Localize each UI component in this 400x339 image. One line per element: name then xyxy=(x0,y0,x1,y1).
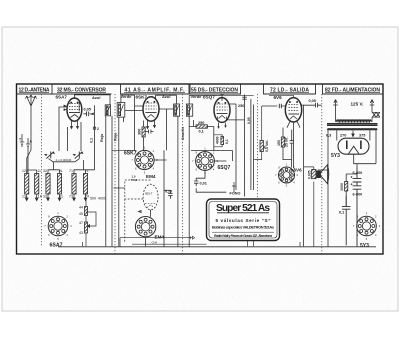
osc coil box T1 xyxy=(105,105,110,116)
resistor R5 150 xyxy=(281,137,284,147)
svg-text:5 válvulas Serie “S”: 5 válvulas Serie “S” xyxy=(216,218,271,223)
tube V2 top stub xyxy=(155,95,157,100)
tube V2 legs xyxy=(148,121,155,127)
tube V1 internals xyxy=(69,104,80,110)
svg-text:0,05: 0,05 xyxy=(84,108,91,112)
V5 plates xyxy=(347,141,361,150)
svg-text:71: 71 xyxy=(69,169,73,173)
svg-text:250: 250 xyxy=(198,121,204,125)
svg-text:250: 250 xyxy=(238,104,244,108)
svg-text:44: 44 xyxy=(79,206,83,210)
svg-text:2 x 0,00046: 2 x 0,00046 xyxy=(56,158,72,162)
wire V4 grid xyxy=(262,105,286,107)
svg-text:7L: 7L xyxy=(85,169,89,173)
socket X2 pin numbers xyxy=(131,146,158,175)
wire antenna to coil xyxy=(27,150,31,173)
svg-text:4000: 4000 xyxy=(98,197,106,201)
tuning gang link xyxy=(49,159,80,162)
wire T2 down xyxy=(119,117,124,246)
wire R chain xyxy=(86,198,96,246)
svg-text:270: 270 xyxy=(340,133,346,137)
svg-text:6V6: 6V6 xyxy=(274,95,283,100)
resistor R3 300 xyxy=(142,127,145,137)
svg-text:13: 13 xyxy=(22,195,26,199)
wire plate right xyxy=(159,109,174,150)
resistor R6 1000 xyxy=(345,182,348,192)
tube V1 legs xyxy=(72,121,78,127)
tube V3 diode plates xyxy=(218,117,227,120)
electrolytic C9 xyxy=(353,186,362,247)
rectifier V5 5Y3 envelope xyxy=(338,138,369,154)
wire fono xyxy=(196,151,234,193)
svg-text:6SA7: 6SA7 xyxy=(56,94,68,99)
secondary taps xyxy=(328,131,376,171)
svg-text:0,05: 0,05 xyxy=(309,99,316,103)
socket X6 pin numbers xyxy=(353,211,381,241)
svg-text:0,1: 0,1 xyxy=(199,130,204,134)
terminal arrow end xyxy=(189,236,195,239)
grid wire left xyxy=(59,107,67,151)
section divider 4 xyxy=(257,94,259,198)
header box DETECCION xyxy=(190,84,241,94)
section divider 1 xyxy=(41,94,43,247)
svg-text:43: 43 xyxy=(79,231,83,235)
title box rule xyxy=(212,231,274,233)
svg-text:Rojo: Rojo xyxy=(100,133,104,142)
capacitor C1 0,05 xyxy=(83,112,88,117)
tube V3 6SQ7 envelope xyxy=(214,98,230,123)
svg-text:Azul: Azul xyxy=(162,94,170,99)
svg-text:33: 33 xyxy=(43,195,47,199)
wire T1 down Rojo xyxy=(105,116,107,247)
svg-text:73: 73 xyxy=(69,195,73,199)
capacitor C4 0,01 xyxy=(194,178,198,186)
mains plug pin L xyxy=(333,100,338,119)
svg-text:300: 300 xyxy=(138,129,142,135)
svg-text:Verde: Verde xyxy=(191,94,203,99)
variable capacitor CV2 xyxy=(75,152,82,159)
IF transformer T3 left box xyxy=(174,104,180,116)
tube V3 internals xyxy=(217,104,228,110)
tube V2 grid wire xyxy=(125,110,143,112)
tube V1 6SA7 envelope xyxy=(67,98,82,121)
wire field coil left xyxy=(318,170,328,247)
svg-text:Amarillo: Amarillo xyxy=(181,127,185,140)
wire h sec3 xyxy=(112,150,167,160)
bus verticals xyxy=(83,241,301,247)
wire h sec4 xyxy=(191,151,233,162)
svg-text:5Y3: 5Y3 xyxy=(331,153,340,159)
header box ANTENA xyxy=(17,84,112,94)
capacitor C6 0,05 xyxy=(304,103,322,108)
wire V5 bottom xyxy=(354,154,376,167)
svg-text:6SQ7: 6SQ7 xyxy=(203,94,215,99)
svg-text:6SQ7: 6SQ7 xyxy=(218,165,231,171)
coil pair L6 xyxy=(83,174,87,195)
heater line CN4 xyxy=(132,243,207,245)
terminal A xyxy=(26,138,30,174)
header box SALIDA xyxy=(264,84,316,94)
svg-text:0,25: 0,25 xyxy=(165,190,172,194)
socket X5 6V6 xyxy=(279,167,295,183)
svg-text:6SK7: 6SK7 xyxy=(136,94,148,99)
svg-text:6SA7: 6SA7 xyxy=(50,243,63,249)
transformer TR primary xyxy=(337,120,372,121)
svg-text:32: 32 xyxy=(43,169,47,173)
resistor R1 xyxy=(85,207,88,216)
voltage selector xyxy=(373,113,380,117)
svg-text:FONO: FONO xyxy=(230,192,241,196)
arrow C1 xyxy=(90,113,94,115)
wire T3 down xyxy=(177,116,179,247)
output transformer T4 xyxy=(312,170,316,179)
svg-text:6-800: 6-800 xyxy=(353,171,363,175)
IF T3 right box xyxy=(186,104,192,116)
wire C1 down xyxy=(86,105,95,170)
potentiometer P1 0,5 xyxy=(260,141,263,152)
V5 filament xyxy=(349,146,359,154)
coupling capacitor C11 xyxy=(279,104,281,108)
resistor R4 250 xyxy=(196,125,207,128)
wire EM4 down xyxy=(114,150,165,247)
svg-text:0,01: 0,01 xyxy=(200,182,207,186)
svg-text:4000: 4000 xyxy=(216,136,220,144)
terminal T xyxy=(20,134,24,147)
svg-text:Rojo: Rojo xyxy=(113,132,117,141)
svg-text:T 0,5: T 0,5 xyxy=(131,178,138,182)
wire V4 plate xyxy=(301,105,303,167)
section divider 2 xyxy=(114,94,116,254)
svg-text:6-800: 6-800 xyxy=(353,192,363,196)
socket X1 pin numbers xyxy=(44,211,72,241)
svg-text:3L: 3L xyxy=(59,169,63,173)
osc coil pair L3 xyxy=(46,174,50,195)
svg-text:0,1: 0,1 xyxy=(90,138,94,143)
section divider 3 xyxy=(182,94,184,254)
title box border xyxy=(207,199,280,241)
socket X1 6SA7 xyxy=(48,216,68,236)
svg-text:Radio Watt y Paseo de Gracia 1: Radio Watt y Paseo de Gracia 132 - Barce… xyxy=(214,234,272,238)
socket X3 EM4 xyxy=(135,217,155,237)
tube V4 6V6 envelope xyxy=(285,98,301,122)
socket X2 6SK7 xyxy=(135,150,154,169)
capacitor C10 xyxy=(342,196,351,245)
variable capacitor CV1 xyxy=(46,152,53,159)
coil pair L5 xyxy=(72,174,76,195)
capacitor C7 25mf xyxy=(290,130,294,160)
wires tube legs to gang xyxy=(59,122,81,151)
svg-text:1000: 1000 xyxy=(340,183,344,191)
magic eye EM4 outline xyxy=(143,184,158,210)
svg-text:CN4: CN4 xyxy=(152,241,158,245)
wire top sec5 xyxy=(269,95,294,98)
osc coil pair L4 xyxy=(57,174,61,195)
terminal circle 2 xyxy=(93,127,96,130)
wire sec5 verticals xyxy=(283,123,314,246)
svg-text:Bobinas especiales VALDETRON 5: Bobinas especiales VALDETRON 521As xyxy=(212,224,274,229)
wire gang to coils xyxy=(27,160,86,170)
header box AMPLIF MF xyxy=(121,84,190,94)
wires right cluster xyxy=(230,95,254,197)
capacitor C5 250 xyxy=(242,97,246,99)
svg-text:45: 45 xyxy=(79,212,83,216)
antenna xyxy=(27,95,36,150)
schematic frame xyxy=(17,84,384,254)
svg-text:6V6: 6V6 xyxy=(294,167,303,172)
coil top links xyxy=(27,170,37,198)
svg-text:0,05: 0,05 xyxy=(247,117,251,124)
svg-text:EM4: EM4 xyxy=(155,235,165,240)
wire T3b verde xyxy=(189,96,222,105)
svg-text:Azul: Azul xyxy=(92,95,100,100)
svg-text:0,5 Vol.: 0,5 Vol. xyxy=(265,140,269,152)
tube V4 internals xyxy=(289,105,300,111)
svg-text:150: 150 xyxy=(277,140,281,146)
svg-text:1L: 1L xyxy=(38,169,42,173)
svg-text:500: 500 xyxy=(90,197,96,201)
wire T2 verde xyxy=(121,95,143,106)
svg-text:6,3: 6,3 xyxy=(326,133,331,137)
svg-text:5Y3: 5Y3 xyxy=(360,243,369,249)
svg-text:125 V.: 125 V. xyxy=(351,101,364,106)
tube V2 6SK7 envelope xyxy=(143,97,159,121)
svg-text:0,025: 0,025 xyxy=(308,170,312,179)
socket X6 5Y3 xyxy=(357,216,377,236)
ground bus xyxy=(58,246,376,248)
transformer TR secondary xyxy=(328,129,378,131)
wire T3 azul xyxy=(156,95,177,104)
EM4 heater wire xyxy=(120,238,191,247)
tube V1 top cap stub xyxy=(73,95,75,99)
svg-text:0,1: 0,1 xyxy=(339,211,344,215)
antenna coil L2 xyxy=(35,174,39,195)
svg-text:47: 47 xyxy=(79,221,83,225)
svg-text:2: 2 xyxy=(97,127,99,131)
tube V2 internals xyxy=(146,103,157,109)
speaker SP xyxy=(317,171,321,178)
resistor R7 parallel xyxy=(221,137,224,145)
wire V3 down xyxy=(205,123,226,152)
junction arrows V1 grid xyxy=(64,105,67,111)
socket X5 pin numbers xyxy=(275,162,298,187)
svg-text:6E5-T: 6E5-T xyxy=(145,191,153,195)
svg-text:375: 375 xyxy=(359,133,365,137)
wire Azul top xyxy=(74,95,110,105)
section divider 5 xyxy=(321,94,323,254)
wire top sec4 xyxy=(222,94,254,96)
svg-text:0,1: 0,1 xyxy=(225,139,229,144)
wire R4 xyxy=(189,120,244,151)
tube V4 legs xyxy=(287,121,300,128)
wire Azul right down xyxy=(111,116,113,247)
ground arrows under coils xyxy=(25,198,38,201)
wire T3b down xyxy=(189,116,193,246)
svg-text:Verde: Verde xyxy=(121,94,133,99)
socket X4 6SQ7 xyxy=(196,152,215,171)
svg-text:12: 12 xyxy=(22,169,26,173)
svg-text:74: 74 xyxy=(85,195,89,199)
svg-text:EM4: EM4 xyxy=(146,174,156,179)
socket X4 pin numbers xyxy=(192,147,218,175)
header box ALIMENTACION xyxy=(323,84,384,94)
plus marks xyxy=(351,176,353,185)
phono jack xyxy=(232,182,236,186)
electrolytic C8 xyxy=(353,167,362,185)
capacitor C3 0,25 xyxy=(164,190,173,199)
svg-text:Super 521 As: Super 521 As xyxy=(216,203,270,214)
transformer TR core xyxy=(327,124,378,126)
resistor R2 xyxy=(85,222,88,233)
svg-text:25 mf.: 25 mf. xyxy=(285,137,289,147)
dashed option box EM4 xyxy=(125,180,151,243)
capacitor C2 xyxy=(146,130,154,134)
underline headers xyxy=(19,92,49,94)
mains plug pin N xyxy=(370,100,375,113)
antenna coil L1 xyxy=(25,174,29,195)
svg-text:41: 41 xyxy=(59,195,63,199)
wire grid junction down xyxy=(134,106,136,150)
IF transformer T2 box left xyxy=(117,103,125,118)
